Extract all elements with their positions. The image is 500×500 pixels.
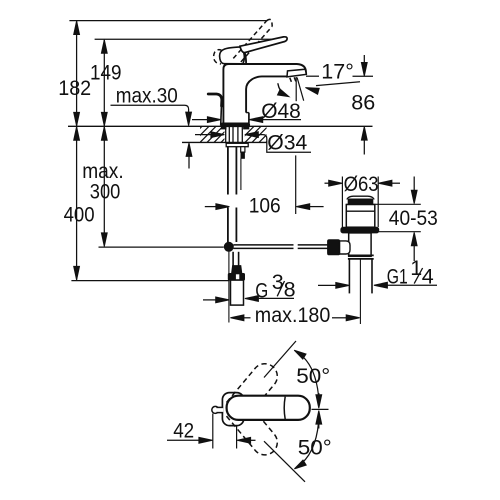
dimension Ø34 arrows at deck hole — [195, 132, 311, 153]
max.180 extension line left — [228, 252, 230, 323]
G3/8 connector barrel — [231, 280, 244, 305]
40-53 extension lines — [375, 204, 421, 231]
label 42 — [173, 419, 194, 443]
top view lever — [227, 396, 310, 420]
spout axis extension line — [295, 155, 297, 214]
label 17 deg — [321, 59, 354, 83]
faucet base collar black bar — [221, 123, 250, 127]
svg-text:149: 149 — [90, 61, 122, 85]
extension line pop-up rod level (max.300 bottom) — [99, 246, 224, 248]
deck hatching left of hole — [186, 126, 237, 142]
label 400 — [64, 203, 95, 227]
svg-text:Ø48: Ø48 — [261, 99, 301, 123]
extension line top of spout lever (149 ref) — [95, 38, 287, 40]
svg-text:17°: 17° — [321, 59, 354, 83]
rod clamp connector — [340, 241, 350, 254]
svg-text:3: 3 — [272, 270, 284, 294]
pop-up rod to drain — [233, 245, 331, 249]
hose below junction — [233, 252, 239, 266]
drain tailpipe — [349, 259, 372, 294]
svg-text:1: 1 — [410, 256, 422, 280]
Ø63 extension lines — [342, 177, 378, 228]
G3/8 arrows — [203, 296, 294, 303]
faucet body outline — [223, 64, 306, 123]
handle lever solid — [240, 37, 287, 64]
svg-text:max.180: max.180 — [255, 303, 331, 327]
svg-text:Ø34: Ø34 — [267, 130, 307, 154]
upper 50 radial line — [264, 341, 296, 378]
svg-text:182: 182 — [58, 76, 91, 100]
axis vertical with arc end arrows — [316, 393, 322, 429]
dimension 182 vertical line — [74, 21, 80, 126]
G1 1/4 arrows — [318, 282, 437, 288]
svg-text:G1: G1 — [387, 264, 408, 288]
deck bottom line — [182, 141, 267, 143]
svg-text:8: 8 — [284, 277, 296, 301]
svg-text:Ø63: Ø63 — [344, 172, 379, 196]
Ø63 arrows — [325, 180, 401, 186]
pop-up rod junction dot — [224, 242, 233, 251]
handle knuckle — [220, 47, 245, 64]
drain body lower — [349, 233, 371, 256]
lower 50 arc — [294, 422, 318, 469]
label Ø34 — [267, 130, 307, 154]
label 50 lower — [298, 436, 332, 460]
label 106 — [249, 194, 281, 218]
17 deg swing arc with arrow — [278, 83, 289, 96]
faucet aerator tip — [287, 69, 306, 82]
dimension 106 arrows — [205, 204, 324, 210]
label 86 — [351, 91, 375, 115]
rod guide bracket — [241, 147, 245, 159]
17 deg leader lines — [296, 76, 373, 101]
dimension 400 vertical line — [74, 127, 80, 280]
label 182 — [58, 76, 91, 100]
label 50 upper — [296, 364, 330, 388]
label max.30 — [116, 84, 178, 108]
drain flange black bar — [346, 199, 374, 204]
label max.180 — [255, 303, 331, 327]
lever axis line — [312, 408, 329, 410]
supply hose lower segment — [228, 208, 237, 243]
drain centerline — [359, 259, 361, 324]
svg-text:300: 300 — [90, 180, 121, 204]
top view body square — [222, 393, 243, 426]
top view handle swung down dashed — [227, 400, 278, 455]
supply hose upper segment — [228, 147, 241, 195]
label 149 — [90, 61, 122, 85]
label 300 — [90, 180, 121, 204]
svg-text:G: G — [255, 279, 268, 303]
extension line top of raised lever (182 ref) — [69, 20, 266, 22]
svg-text:50°: 50° — [298, 436, 332, 460]
svg-text:max.30: max.30 — [116, 84, 178, 108]
dimension 149 vertical line — [101, 40, 107, 126]
max.30 bottom arrow below deck — [186, 143, 192, 169]
hose end fitting black — [232, 266, 242, 274]
svg-text:4: 4 — [422, 265, 434, 289]
40-53 arrows — [411, 177, 417, 262]
label max. (of max.300) — [82, 159, 124, 183]
tailpipe coupling rings — [348, 255, 374, 259]
max.30 leader with corner and down arrow — [111, 105, 192, 125]
extension line hose connection level (400 bottom) — [71, 280, 229, 282]
base plate corner wedges — [221, 126, 248, 129]
svg-text:400: 400 — [64, 203, 95, 227]
label Ø48 — [261, 99, 301, 123]
hose nut black — [228, 274, 244, 281]
threaded shank through deck — [226, 127, 243, 144]
washer under deck — [226, 143, 248, 146]
svg-text:106: 106 — [249, 194, 281, 218]
top view handle swung up dashed — [227, 364, 278, 419]
deck top line — [68, 125, 373, 127]
drain seal black band — [341, 227, 379, 233]
svg-text:50°: 50° — [296, 364, 330, 388]
drain body upper — [346, 205, 375, 228]
lower 50 radial line — [264, 441, 305, 482]
42 arrows — [167, 437, 256, 443]
top view aerator tab — [212, 406, 223, 413]
42 extension lines — [213, 414, 237, 449]
label G1 1/4 — [387, 256, 434, 289]
rod clamp block black — [328, 240, 340, 255]
label 40-53 — [389, 206, 438, 230]
svg-text:40-53: 40-53 — [389, 206, 438, 230]
drain flange dome — [347, 196, 374, 199]
dimension max.300 vertical line — [101, 127, 107, 247]
dimension 86 vertical — [361, 55, 367, 155]
handle raised position dashed — [214, 19, 273, 63]
deck hatching right of hole — [231, 126, 282, 142]
svg-text:42: 42 — [173, 419, 194, 443]
max.180 arrows — [230, 315, 359, 321]
upper 50 arc — [294, 350, 318, 396]
label G3/8 — [255, 270, 295, 302]
pull-rod knob behind spout — [208, 94, 222, 126]
dimension Ø48 arrows and line — [192, 117, 301, 123]
label Ø63 — [344, 172, 379, 196]
svg-text:86: 86 — [351, 91, 375, 115]
